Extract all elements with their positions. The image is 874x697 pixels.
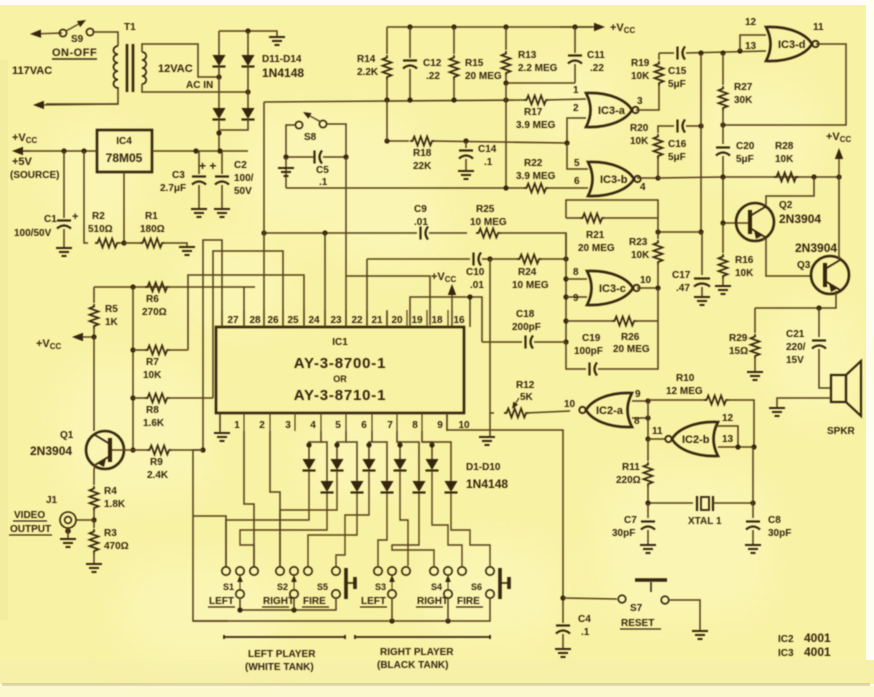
capacitor C20 <box>722 125 724 144</box>
capacitor C19 <box>588 363 590 376</box>
svg-text:100pF: 100pF <box>574 346 603 357</box>
speaker SPKR <box>831 375 846 402</box>
diode D12 <box>247 31 249 55</box>
svg-text:.22: .22 <box>426 71 440 82</box>
C10 row wire <box>367 258 470 260</box>
svg-text:2N3904: 2N3904 <box>30 444 72 458</box>
wire Q3 collector to +Vcc <box>839 177 841 258</box>
wire XTAL to C8 node <box>713 502 753 504</box>
wire R9 to switch common <box>193 450 228 621</box>
svg-text:IC3-a: IC3-a <box>598 105 626 117</box>
svg-text:20 MEG: 20 MEG <box>613 344 650 355</box>
capacitor C8 <box>752 503 754 518</box>
paper mottling <box>50 60 860 660</box>
svg-text:IC3-c: IC3-c <box>599 283 626 295</box>
svg-text:C11: C11 <box>587 50 605 61</box>
svg-text:R21: R21 <box>586 230 605 241</box>
capacitor C1 <box>63 151 65 218</box>
ground under C8 <box>745 545 761 553</box>
pin 19 riser wire <box>410 297 482 342</box>
resistor R23 <box>657 232 659 239</box>
svg-text:C9: C9 <box>414 204 427 215</box>
svg-text:Q1: Q1 <box>60 430 74 441</box>
bridge top rail wire <box>219 31 277 36</box>
resistor R8 <box>133 397 145 399</box>
svg-text:13: 13 <box>745 41 757 52</box>
svg-text:FIRE: FIRE <box>457 596 480 607</box>
resistor R15 <box>453 27 455 54</box>
diode D2 <box>321 442 327 481</box>
svg-text:2.4K: 2.4K <box>147 470 169 481</box>
ground under pin 1 <box>214 433 230 441</box>
resistor R16 <box>722 223 724 253</box>
svg-text:1.8K: 1.8K <box>104 499 126 510</box>
svg-text:20 MEG: 20 MEG <box>578 243 615 254</box>
svg-text:13: 13 <box>722 434 734 445</box>
svg-text:25: 25 <box>287 315 299 326</box>
transistor Q1 <box>86 431 124 469</box>
svg-text:5: 5 <box>335 420 341 431</box>
switch S5 <box>332 567 340 575</box>
svg-text:3.9 MEG: 3.9 MEG <box>516 171 556 182</box>
svg-text:C17: C17 <box>672 270 691 281</box>
svg-text:12: 12 <box>722 413 734 424</box>
diode D10 <box>422 442 451 481</box>
pin 27 riser wire <box>203 240 222 450</box>
svg-text:10K: 10K <box>735 268 754 279</box>
Q2 bias rail wire <box>658 177 723 178</box>
pin 28 riser wire <box>243 287 245 327</box>
+Vcc top rail wire <box>387 26 592 28</box>
resistor R6 <box>145 283 170 292</box>
svg-text:S4: S4 <box>431 582 442 592</box>
svg-text:C19: C19 <box>582 333 601 344</box>
wire Q2 collector <box>766 177 814 205</box>
resistor R7 <box>145 346 170 355</box>
ground under C4 <box>555 649 571 657</box>
right player bracket <box>355 635 490 639</box>
svg-text:100/50V: 100/50V <box>14 228 52 239</box>
diode D8 <box>397 442 419 481</box>
diode matrix weave wires <box>226 471 309 566</box>
svg-text:11: 11 <box>813 22 824 33</box>
svg-text:2.2K: 2.2K <box>357 67 379 78</box>
svg-text:200pF: 200pF <box>512 322 541 333</box>
wire T1 primary bottom to line <box>46 87 118 104</box>
svg-text:30pF: 30pF <box>612 528 635 539</box>
capacitor C16 <box>676 120 678 133</box>
diode D7 <box>397 431 400 459</box>
svg-text:21: 21 <box>371 315 383 326</box>
svg-text:R9: R9 <box>150 457 163 468</box>
IC1 AY-3-8700-1 <box>216 327 464 413</box>
svg-text:15Ω: 15Ω <box>729 346 748 357</box>
resistor R14 <box>386 27 388 54</box>
capacitor C10 <box>472 253 474 266</box>
ground under C5 left node <box>285 157 287 188</box>
svg-text:.1: .1 <box>581 627 590 638</box>
svg-text:7: 7 <box>387 420 393 431</box>
switch S7 RESET <box>635 578 667 582</box>
svg-text:S2: S2 <box>277 582 288 592</box>
svg-text:+: + <box>72 211 78 223</box>
ground under C17 <box>694 297 710 305</box>
wire J1 to ground <box>65 528 71 534</box>
svg-text:C5: C5 <box>316 165 329 176</box>
svg-text:28: 28 <box>249 315 261 326</box>
svg-text:12 MEG: 12 MEG <box>666 386 703 397</box>
+Vcc output rail wire <box>14 150 97 152</box>
right player common bus wire <box>193 598 490 621</box>
svg-text:OR: OR <box>333 374 347 384</box>
svg-text:2: 2 <box>573 103 579 114</box>
wire R12 to ground <box>489 413 491 436</box>
svg-text:R29: R29 <box>729 333 748 344</box>
capacitor C14 <box>465 141 467 148</box>
wire T1 secondary top to bridge <box>142 44 219 77</box>
svg-text:R24: R24 <box>518 267 537 278</box>
node AC IN left <box>216 74 221 79</box>
svg-text:XTAL 1: XTAL 1 <box>688 516 722 527</box>
pin 16 riser wire <box>469 297 471 327</box>
wire Q1 emitter to R4 <box>94 464 95 485</box>
diode D4 <box>346 442 357 481</box>
svg-text:R1: R1 <box>145 211 158 222</box>
svg-text:AY-3-8700-1: AY-3-8700-1 <box>294 355 386 372</box>
svg-text:20: 20 <box>391 315 403 326</box>
pin 1 ground wire <box>219 413 221 432</box>
svg-text:30pF: 30pF <box>768 528 791 539</box>
svg-text:R22: R22 <box>524 158 543 169</box>
svg-text:R25: R25 <box>476 204 495 215</box>
svg-text:270Ω: 270Ω <box>142 307 167 318</box>
svg-text:.01: .01 <box>470 280 484 291</box>
svg-text:IC1: IC1 <box>332 337 348 348</box>
svg-text:9: 9 <box>573 293 579 304</box>
ground under S7 <box>692 631 708 639</box>
resistor R19 <box>655 61 664 86</box>
ground at bridge top <box>269 37 285 45</box>
resistor R22 row <box>286 187 524 189</box>
node AC IN right <box>245 89 250 94</box>
svg-text:15V: 15V <box>786 355 804 366</box>
capacitor C2 <box>221 151 223 174</box>
svg-text:16: 16 <box>453 315 465 326</box>
svg-text:LEFT PLAYER: LEFT PLAYER <box>248 649 316 660</box>
svg-text:R19: R19 <box>631 58 650 69</box>
svg-text:+5V: +5V <box>12 156 33 168</box>
capacitor C11 <box>574 27 576 53</box>
IC3-d NOR gate <box>766 27 812 61</box>
wire Q2 emitter to Q3 base <box>762 239 812 276</box>
rheostat R12 <box>489 259 491 413</box>
svg-text:C1: C1 <box>44 214 57 225</box>
R26 row wire <box>566 320 612 322</box>
wire S8 right column to pin18 bus <box>345 157 347 327</box>
diode D9 <box>422 431 432 459</box>
capacitor C12 <box>409 27 411 58</box>
svg-text:22K: 22K <box>413 161 432 172</box>
svg-text:R7: R7 <box>146 357 159 368</box>
IC4 78M05 regulator <box>97 130 152 172</box>
ground under C14 <box>458 171 474 179</box>
svg-text:R8: R8 <box>146 405 159 416</box>
resistor R21 <box>566 217 580 219</box>
svg-text:10: 10 <box>564 399 576 410</box>
resistor R13 <box>505 27 507 50</box>
svg-text:S3: S3 <box>375 582 386 592</box>
svg-text:470Ω: 470Ω <box>104 541 129 552</box>
resistor R4 <box>90 486 99 511</box>
wire IC4 bottom to R2/R1 node <box>117 172 124 243</box>
capacitor C15 <box>676 47 678 60</box>
svg-text:220Ω: 220Ω <box>616 475 641 486</box>
svg-text:26: 26 <box>267 315 279 326</box>
svg-text:3.9 MEG: 3.9 MEG <box>516 120 556 131</box>
svg-text:R11: R11 <box>622 462 640 473</box>
svg-text:ON-OFF: ON-OFF <box>52 47 97 59</box>
svg-text:SPKR: SPKR <box>827 426 856 437</box>
svg-text:10K: 10K <box>775 154 794 165</box>
svg-text:C21: C21 <box>786 329 805 340</box>
resistor R3 <box>93 520 95 528</box>
wire S8 left leg <box>286 125 295 157</box>
wire S8 right leg <box>327 124 346 157</box>
svg-text:5μF: 5μF <box>736 154 754 165</box>
svg-text:11: 11 <box>652 426 663 437</box>
svg-text:C15: C15 <box>668 66 687 77</box>
wire bridge output to C2 node <box>220 119 248 130</box>
+Vcc arrow left mid <box>83 336 94 338</box>
wire Q1 base <box>112 449 133 451</box>
svg-text:R14: R14 <box>357 54 376 65</box>
switch S2 <box>276 567 284 575</box>
connector J1 <box>60 512 76 528</box>
resistor R18 <box>410 137 435 146</box>
ground right of R1 <box>179 247 195 255</box>
svg-text:20 MEG: 20 MEG <box>465 71 502 82</box>
ground under R16 <box>715 286 731 294</box>
svg-text:D1-D10: D1-D10 <box>466 462 501 473</box>
capacitor C5 <box>286 156 314 158</box>
svg-text:78M05: 78M05 <box>106 151 143 165</box>
svg-text:Q3: Q3 <box>797 260 811 271</box>
svg-text:12: 12 <box>745 17 757 28</box>
svg-text:IC3-b: IC3-b <box>600 174 628 186</box>
wire Q3 emitter to C21 node <box>755 291 836 308</box>
svg-text:10K: 10K <box>631 71 650 82</box>
svg-text:OUTPUT: OUTPUT <box>10 524 51 535</box>
svg-text:LEFT: LEFT <box>361 596 386 607</box>
svg-text:FIRE: FIRE <box>303 596 326 607</box>
ground under C1 <box>56 248 72 256</box>
IC2-a input wires <box>632 400 648 402</box>
svg-text:IC2: IC2 <box>778 634 794 645</box>
switch S8 <box>295 121 302 128</box>
resistor R24 <box>490 258 517 260</box>
svg-text:R4: R4 <box>104 486 117 497</box>
svg-text:19: 19 <box>411 315 423 326</box>
svg-text:RESET: RESET <box>621 618 654 629</box>
pin 26 riser wire <box>263 102 265 327</box>
svg-text:C14: C14 <box>478 144 497 155</box>
svg-text:R5: R5 <box>105 304 118 315</box>
svg-text:R3: R3 <box>104 528 117 539</box>
wire R13/C11 bottom join <box>506 82 575 84</box>
IC3-c NOR gate <box>566 278 587 280</box>
diode D13 <box>213 108 226 119</box>
svg-text:R13: R13 <box>518 50 537 61</box>
pin 23 riser wire <box>324 233 326 327</box>
capacitor C3 <box>198 151 200 174</box>
svg-text:.47: .47 <box>676 283 690 294</box>
ground under R3 <box>86 564 102 572</box>
resistor R1 <box>140 239 165 248</box>
svg-text:4: 4 <box>640 182 646 193</box>
svg-text:C8: C8 <box>768 515 781 526</box>
switch S6 <box>486 567 494 575</box>
svg-text:R6: R6 <box>146 294 159 305</box>
svg-text:1N4148: 1N4148 <box>262 66 304 80</box>
svg-text:3: 3 <box>285 420 291 431</box>
svg-text:10 MEG: 10 MEG <box>512 280 549 291</box>
svg-text:10K: 10K <box>631 250 650 261</box>
svg-text:AC IN: AC IN <box>186 80 213 91</box>
pin 21 riser wire <box>366 259 368 327</box>
svg-text:510Ω: 510Ω <box>88 224 113 235</box>
capacitor C17 <box>701 231 702 233</box>
svg-text:23: 23 <box>330 315 342 326</box>
svg-text:100/: 100/ <box>234 173 254 184</box>
svg-text:R15: R15 <box>465 58 484 69</box>
svg-text:C3: C3 <box>172 170 185 181</box>
IC2-b NOR gate mirrored <box>648 438 665 440</box>
svg-text:5K: 5K <box>520 392 534 403</box>
svg-text:2.7μF: 2.7μF <box>160 183 186 194</box>
svg-text:C4: C4 <box>578 614 591 625</box>
diode D1 <box>309 431 321 459</box>
svg-text:6: 6 <box>361 420 367 431</box>
capacitor C9 <box>419 227 421 240</box>
R7 row wire <box>132 287 134 450</box>
svg-text:C18: C18 <box>516 309 535 320</box>
pin 20 riser wire <box>386 311 388 327</box>
wire IC3-c output <box>637 287 658 289</box>
IC3-c bus wire <box>565 233 567 342</box>
wire C17 node to R23 <box>658 231 701 233</box>
wire S7 to ground <box>669 600 700 630</box>
R21 loop wire <box>566 200 658 232</box>
svg-text:9: 9 <box>437 420 443 431</box>
ground under C7 <box>640 545 656 553</box>
+Vcc arrow pin 17 <box>451 310 453 327</box>
resistor R28 <box>774 173 799 182</box>
svg-text:R27: R27 <box>734 82 753 93</box>
svg-text:5μF: 5μF <box>668 79 686 90</box>
oscillator rail y=100 wire <box>264 100 524 102</box>
svg-text:4: 4 <box>310 420 316 431</box>
svg-text:9: 9 <box>635 389 641 400</box>
ground under speaker <box>769 408 785 416</box>
svg-text:D11-D14: D11-D14 <box>262 54 302 65</box>
J1 video output node <box>91 517 96 522</box>
diode D11 <box>218 31 220 55</box>
diode D5 <box>369 431 372 459</box>
svg-text:(SOURCE): (SOURCE) <box>10 170 59 181</box>
svg-text:3: 3 <box>637 96 643 107</box>
svg-text:R18: R18 <box>413 148 432 159</box>
svg-text:R28: R28 <box>775 141 794 152</box>
ground under C2 <box>214 209 230 217</box>
svg-text:T1: T1 <box>124 22 136 33</box>
switch S4 <box>430 567 438 575</box>
svg-text:1.6K: 1.6K <box>143 418 165 429</box>
svg-text:R16: R16 <box>735 255 754 266</box>
resistor R27 <box>722 53 724 85</box>
ground under R29 <box>747 372 763 380</box>
resistor R10 <box>648 399 705 401</box>
svg-text:12VAC: 12VAC <box>158 63 193 75</box>
IC2 bus wire <box>647 401 649 439</box>
svg-text:.1: .1 <box>484 157 493 168</box>
resistor R2 <box>84 151 88 243</box>
svg-text:IC4: IC4 <box>116 136 132 147</box>
svg-text:RIGHT PLAYER: RIGHT PLAYER <box>380 647 454 658</box>
svg-text:S6: S6 <box>471 582 482 592</box>
svg-text:180Ω: 180Ω <box>140 224 165 235</box>
left player bracket <box>224 635 345 639</box>
svg-text:.1: .1 <box>319 177 328 188</box>
svg-text:4001: 4001 <box>804 645 831 659</box>
svg-text:117VAC: 117VAC <box>12 65 52 77</box>
svg-text:C7: C7 <box>624 515 637 526</box>
svg-text:(WHITE TANK): (WHITE TANK) <box>245 662 314 673</box>
wire bus to IC3-b input5 <box>567 143 588 169</box>
svg-text:2: 2 <box>259 420 265 431</box>
svg-text:S7: S7 <box>630 603 643 614</box>
capacitor C21 <box>818 308 820 337</box>
resistor R25 <box>476 229 501 238</box>
transistor Q2 <box>736 203 774 241</box>
pin 25 riser wire <box>213 251 283 398</box>
svg-text:1: 1 <box>234 420 240 431</box>
svg-text:C2: C2 <box>234 160 247 171</box>
ground under R12 <box>479 437 495 445</box>
svg-text:5: 5 <box>574 158 580 169</box>
svg-text:.22: .22 <box>590 63 604 74</box>
svg-text:R10: R10 <box>676 373 695 384</box>
svg-text:S1: S1 <box>223 582 234 592</box>
svg-text:R20: R20 <box>630 123 649 134</box>
diode D3 <box>337 431 346 459</box>
svg-text:8: 8 <box>573 267 579 278</box>
switch S9 <box>41 32 62 35</box>
resistor R20 <box>657 157 659 178</box>
wire speaker to ground <box>777 398 831 407</box>
svg-text:2N3904: 2N3904 <box>779 212 821 226</box>
svg-text:C20: C20 <box>736 141 755 152</box>
svg-text:R17: R17 <box>524 107 543 118</box>
svg-text:8: 8 <box>634 416 640 427</box>
svg-text:10 MEG: 10 MEG <box>470 217 507 228</box>
svg-text:(BLACK TANK): (BLACK TANK) <box>377 660 448 671</box>
svg-text:C12: C12 <box>423 58 442 69</box>
svg-text:1N4148: 1N4148 <box>466 477 508 491</box>
svg-text:LEFT: LEFT <box>209 596 234 607</box>
svg-text:R26: R26 <box>621 332 640 343</box>
svg-text:10: 10 <box>640 275 652 286</box>
IC3-b NOR gate <box>588 162 634 196</box>
